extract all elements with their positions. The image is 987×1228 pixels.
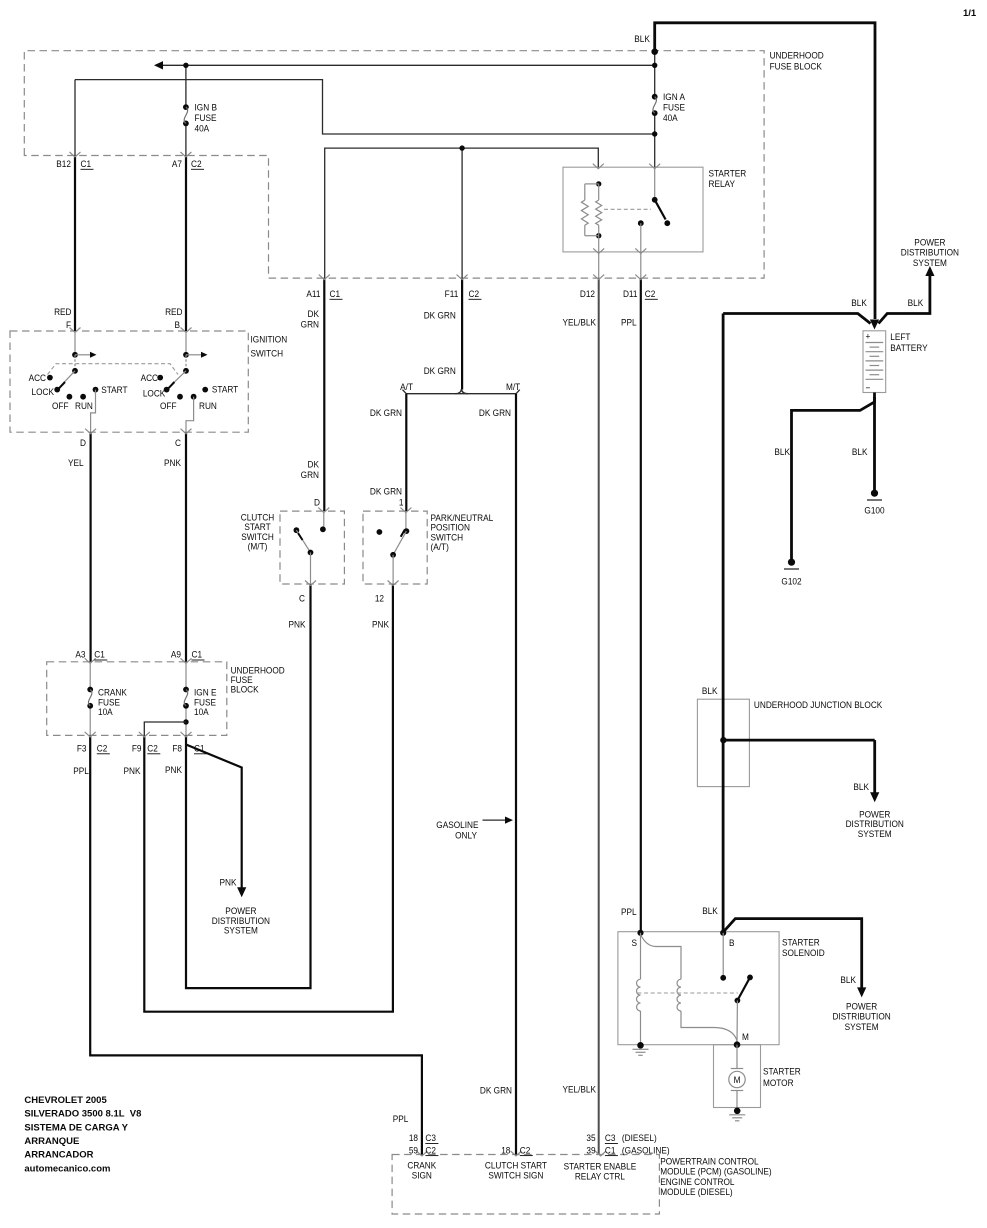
svg-text:M/T: M/T (506, 381, 521, 392)
svg-text:PPL: PPL (393, 1113, 409, 1124)
svg-text:C1: C1 (605, 1145, 616, 1156)
svg-text:START: START (212, 384, 239, 395)
svg-text:IGN B: IGN B (195, 102, 218, 113)
svg-text:C2: C2 (469, 288, 480, 299)
svg-text:BATTERY: BATTERY (890, 342, 927, 353)
svg-text:PNK: PNK (164, 457, 181, 468)
svg-text:C3: C3 (605, 1133, 616, 1144)
svg-text:C3: C3 (425, 1133, 436, 1144)
svg-text:PNK: PNK (289, 619, 306, 630)
svg-text:C2: C2 (97, 743, 108, 754)
svg-text:BLK: BLK (634, 33, 650, 44)
svg-text:RELAY: RELAY (709, 178, 736, 189)
svg-text:SOLENOID: SOLENOID (782, 947, 825, 958)
svg-text:DK: DK (308, 459, 320, 470)
svg-text:C1: C1 (330, 288, 341, 299)
svg-text:SISTEMA DE CARGA Y: SISTEMA DE CARGA Y (24, 1122, 128, 1133)
svg-text:ONLY: ONLY (455, 830, 477, 841)
svg-text:PNK: PNK (165, 764, 182, 775)
svg-text:LEFT: LEFT (890, 332, 911, 343)
svg-text:SWITCH SIGN: SWITCH SIGN (488, 1170, 543, 1181)
svg-text:G102: G102 (781, 576, 801, 587)
svg-text:YEL: YEL (68, 457, 84, 468)
svg-text:PNK: PNK (124, 765, 141, 776)
svg-text:MODULE (DIESEL): MODULE (DIESEL) (660, 1186, 732, 1197)
svg-text:DK GRN: DK GRN (370, 407, 402, 418)
svg-text:PNK: PNK (220, 877, 237, 888)
svg-text:ACC: ACC (29, 372, 47, 383)
svg-text:RED: RED (54, 306, 71, 317)
svg-text:FUSE BLOCK: FUSE BLOCK (770, 61, 822, 72)
svg-text:FUSE: FUSE (195, 112, 217, 123)
svg-text:DK GRN: DK GRN (370, 486, 402, 497)
svg-text:M: M (734, 1074, 741, 1085)
svg-text:SWITCH: SWITCH (251, 348, 284, 359)
svg-text:C1: C1 (192, 649, 203, 660)
svg-text:(A/T): (A/T) (431, 542, 449, 553)
svg-text:BLK: BLK (852, 446, 868, 457)
svg-text:YEL/BLK: YEL/BLK (562, 1084, 596, 1095)
svg-text:IGN A: IGN A (663, 92, 685, 103)
svg-text:DK GRN: DK GRN (479, 407, 511, 418)
svg-text:59: 59 (409, 1145, 418, 1156)
svg-text:BLOCK: BLOCK (231, 684, 259, 695)
svg-text:SIGN: SIGN (412, 1170, 432, 1181)
svg-text:POWERTRAIN CONTROL: POWERTRAIN CONTROL (660, 1156, 758, 1167)
svg-text:UNDERHOOD JUNCTION BLOCK: UNDERHOOD JUNCTION BLOCK (754, 699, 882, 710)
svg-text:A7: A7 (172, 158, 182, 169)
svg-text:C2: C2 (425, 1145, 436, 1156)
svg-text:RUN: RUN (199, 400, 217, 411)
svg-text:F11: F11 (445, 288, 459, 299)
svg-text:1/1: 1/1 (963, 8, 977, 19)
svg-text:B: B (174, 319, 180, 330)
svg-text:RUN: RUN (75, 400, 93, 411)
svg-text:BLK: BLK (853, 781, 869, 792)
svg-text:A11: A11 (306, 288, 320, 299)
svg-text:C2: C2 (645, 288, 656, 299)
svg-text:SILVERADO 3500 8.1L V8: SILVERADO 3500 8.1L V8 (24, 1109, 141, 1120)
svg-text:C1: C1 (194, 743, 205, 754)
svg-text:A9: A9 (171, 649, 181, 660)
svg-text:GRN: GRN (301, 469, 319, 480)
svg-text:ACC: ACC (141, 372, 159, 383)
svg-text:RELAY CTRL: RELAY CTRL (575, 1171, 625, 1182)
svg-text:39: 39 (586, 1145, 595, 1156)
svg-text:OFF: OFF (160, 400, 177, 411)
svg-text:(M/T): (M/T) (248, 541, 268, 552)
svg-text:SYSTEM: SYSTEM (224, 925, 258, 936)
svg-text:C1: C1 (94, 649, 105, 660)
svg-text:DK GRN: DK GRN (424, 310, 456, 321)
svg-text:YEL/BLK: YEL/BLK (562, 317, 596, 328)
svg-text:D: D (80, 437, 86, 448)
svg-text:SYSTEM: SYSTEM (913, 257, 947, 268)
svg-text:F8: F8 (172, 743, 182, 754)
svg-text:C2: C2 (520, 1145, 531, 1156)
svg-text:A3: A3 (75, 649, 85, 660)
svg-text:12: 12 (375, 593, 384, 604)
svg-text:SYSTEM: SYSTEM (858, 828, 892, 839)
svg-text:automecanico.com: automecanico.com (24, 1163, 110, 1174)
svg-text:G100: G100 (864, 505, 884, 516)
svg-text:BLK: BLK (702, 906, 718, 917)
svg-text:DISTRIBUTION: DISTRIBUTION (832, 1011, 890, 1022)
svg-text:PNK: PNK (372, 619, 389, 630)
svg-text:PPL: PPL (621, 317, 637, 328)
svg-text:LOCK: LOCK (143, 388, 166, 399)
svg-text:F3: F3 (77, 743, 87, 754)
svg-text:MODULE (PCM) (GASOLINE): MODULE (PCM) (GASOLINE) (660, 1166, 771, 1177)
svg-text:B: B (729, 937, 735, 948)
svg-text:+: + (866, 331, 871, 342)
svg-text:CHEVROLET 2005: CHEVROLET 2005 (24, 1095, 107, 1106)
svg-text:FUSE: FUSE (663, 102, 685, 113)
svg-text:RED: RED (165, 306, 182, 317)
svg-text:DISTRIBUTION: DISTRIBUTION (901, 247, 959, 258)
svg-text:S: S (631, 937, 637, 948)
svg-text:DK: DK (308, 308, 320, 319)
svg-text:SYSTEM: SYSTEM (845, 1021, 879, 1032)
svg-text:10A: 10A (194, 707, 209, 718)
svg-text:40A: 40A (663, 113, 678, 124)
svg-text:B12: B12 (56, 158, 71, 169)
svg-text:C1: C1 (81, 158, 92, 169)
svg-text:OFF: OFF (52, 400, 69, 411)
svg-text:BLK: BLK (908, 297, 924, 308)
svg-text:START: START (101, 384, 128, 395)
svg-text:POWER: POWER (846, 1001, 878, 1012)
svg-text:STARTER: STARTER (709, 168, 747, 179)
svg-text:ENGINE CONTROL: ENGINE CONTROL (660, 1176, 734, 1187)
svg-text:C2: C2 (191, 158, 202, 169)
svg-text:GRN: GRN (301, 319, 319, 330)
svg-text:C: C (175, 437, 181, 448)
svg-text:(DIESEL): (DIESEL) (622, 1133, 657, 1144)
svg-text:F: F (66, 319, 72, 330)
svg-text:M: M (742, 1031, 749, 1042)
svg-text:UNDERHOOD: UNDERHOOD (770, 50, 824, 61)
svg-text:D: D (314, 497, 320, 508)
svg-text:40A: 40A (195, 123, 210, 134)
svg-text:STARTER: STARTER (782, 937, 820, 948)
svg-text:−: − (866, 382, 871, 393)
svg-text:C2: C2 (147, 743, 158, 754)
svg-text:D11: D11 (623, 288, 638, 299)
svg-text:F9: F9 (132, 743, 142, 754)
svg-text:IGNITION: IGNITION (251, 334, 288, 345)
svg-text:STARTER: STARTER (763, 1066, 801, 1077)
svg-text:18: 18 (409, 1133, 418, 1144)
svg-text:DK GRN: DK GRN (480, 1085, 512, 1096)
svg-text:LOCK: LOCK (32, 386, 55, 397)
svg-text:PPL: PPL (73, 765, 89, 776)
svg-text:10A: 10A (98, 707, 113, 718)
svg-text:DK GRN: DK GRN (424, 365, 456, 376)
svg-text:POWER: POWER (914, 237, 946, 248)
svg-text:BLK: BLK (840, 974, 856, 985)
svg-text:35: 35 (586, 1133, 595, 1144)
svg-text:18: 18 (501, 1145, 510, 1156)
svg-text:1: 1 (399, 497, 404, 508)
svg-text:C: C (299, 593, 305, 604)
svg-text:GASOLINE: GASOLINE (436, 819, 478, 830)
svg-text:BLK: BLK (774, 446, 790, 457)
svg-text:ARRANCADOR: ARRANCADOR (24, 1150, 93, 1161)
svg-text:A/T: A/T (400, 381, 413, 392)
svg-text:ARRANQUE: ARRANQUE (24, 1136, 79, 1147)
svg-text:MOTOR: MOTOR (763, 1077, 794, 1088)
svg-text:PPL: PPL (621, 907, 637, 918)
svg-text:D12: D12 (580, 288, 595, 299)
svg-text:(GASOLINE): (GASOLINE) (622, 1145, 670, 1156)
svg-text:BLK: BLK (702, 685, 718, 696)
svg-text:BLK: BLK (851, 297, 867, 308)
